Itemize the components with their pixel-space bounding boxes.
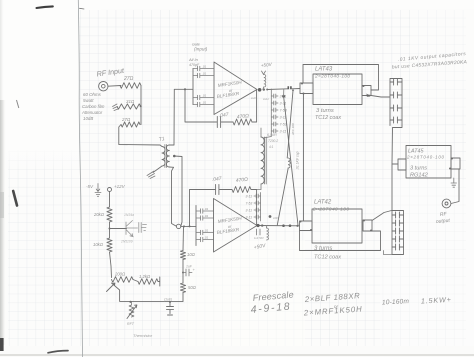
wire bias bottom <box>112 283 184 303</box>
svg-text:+12V: +12V <box>114 184 126 189</box>
feedback resistor R5 470ohm <box>232 177 257 226</box>
svg-text:2×28T040-100: 2×28T040-100 <box>314 74 350 80</box>
svg-text:.01: .01 <box>204 214 209 218</box>
svg-text:1.5KW+: 1.5KW+ <box>421 295 451 306</box>
resistor R3 27ohm <box>121 117 140 127</box>
wire cross diagonal B <box>284 89 298 225</box>
svg-text:60 Ohms: 60 Ohms <box>83 92 102 97</box>
svg-text:3-11: 3-11 <box>280 101 287 105</box>
svg-text:27Ω: 27Ω <box>123 76 134 82</box>
svg-text:2×28T040-100: 2×28T040-100 <box>312 207 349 213</box>
svg-text:3-11: 3-11 <box>280 129 287 133</box>
feedback resistor R4 470ohm <box>233 90 257 126</box>
connector input lower <box>176 224 180 228</box>
svg-text:Thermistor: Thermistor <box>133 333 153 338</box>
wire <box>384 251 393 255</box>
+50V feed <box>251 62 273 101</box>
wire <box>372 211 392 221</box>
pen slash left <box>13 191 17 206</box>
svg-text:200Ω: 200Ω <box>114 272 126 277</box>
svg-text:10Ω: 10Ω <box>187 252 196 257</box>
ground <box>451 178 457 187</box>
op-amp U2 MRF1K50H lower <box>214 199 258 253</box>
feedback cap C1 .047 <box>185 89 233 127</box>
resistor R9 1.2k <box>133 274 160 286</box>
svg-text:7-53: 7-53 <box>280 122 287 126</box>
input coupling caps U1 <box>185 65 214 107</box>
svg-text:LAT43: LAT43 <box>315 67 333 73</box>
capacitor C13 <box>164 298 174 316</box>
output matching caps lower <box>246 193 261 222</box>
svg-text:470Ω: 470Ω <box>237 113 250 120</box>
svg-text:LAT42: LAT42 <box>314 200 332 206</box>
svg-text:31Ω: 31Ω <box>126 99 135 104</box>
svg-text:.01: .01 <box>202 72 207 76</box>
wire lower bus <box>257 224 300 227</box>
wire <box>367 94 391 98</box>
node junction <box>184 88 186 90</box>
capacitor C14 1uF <box>182 260 196 284</box>
svg-text:3-11: 3-11 <box>246 208 253 212</box>
svg-text:2×28T040-100: 2×28T040-100 <box>406 155 445 160</box>
svg-text:(Input): (Input) <box>194 47 208 52</box>
svg-text:3-11: 3-11 <box>246 215 253 219</box>
small mark left <box>17 100 19 108</box>
connector J1 RF input <box>99 82 108 91</box>
svg-text:470pF: 470pF <box>189 63 200 67</box>
output matching caps upper <box>263 89 287 138</box>
input coupling caps U2 <box>196 206 214 246</box>
svg-text:3 turns: 3 turns <box>316 108 334 114</box>
svg-text:.047: .047 <box>212 176 223 183</box>
svg-text:10dB: 10dB <box>83 116 93 121</box>
op-amp U1 MRF1K50H upper <box>214 62 257 115</box>
+12V supply <box>108 184 126 207</box>
svg-text:7-53: 7-53 <box>246 201 253 205</box>
scan corner artifact <box>0 338 4 351</box>
svg-text:.01 1KV cap: .01 1KV cap <box>296 151 300 170</box>
transformer LAT43 <box>300 67 371 105</box>
svg-text:RG142: RG142 <box>410 173 429 179</box>
-5V supply <box>86 184 101 197</box>
LAT43 note <box>315 108 341 121</box>
title parts <box>303 291 363 317</box>
attenuator note <box>81 92 105 121</box>
resistor R2 31ohm <box>117 99 141 109</box>
svg-text:10-160m: 10-160m <box>382 298 410 306</box>
output cap note <box>392 51 467 70</box>
svg-text:.01: .01 <box>204 236 209 240</box>
svg-text:5watt: 5watt <box>83 98 94 103</box>
resistor R1 27ohm <box>120 76 141 88</box>
svg-text:T200-2: T200-2 <box>268 139 278 143</box>
capacitor bank upper C4-C7 <box>390 79 402 126</box>
svg-text:.01: .01 <box>202 65 207 69</box>
resistor R7 10k <box>93 238 112 252</box>
node drain upper <box>258 88 268 92</box>
connector RF output <box>436 199 451 225</box>
svg-text:10Ω: 10Ω <box>273 216 279 220</box>
svg-text:.01: .01 <box>204 207 209 211</box>
wire cross diagonal A <box>277 91 293 226</box>
svg-text:RFT: RFT <box>127 322 135 326</box>
ground <box>147 166 162 179</box>
feedback cap C2 .047 <box>190 176 233 226</box>
input caps note <box>188 57 200 67</box>
wire <box>182 226 185 250</box>
wire <box>267 86 300 98</box>
svg-text:20kΩ: 20kΩ <box>93 212 105 217</box>
wire <box>110 252 112 278</box>
svg-text:2N5109: 2N5109 <box>120 240 133 244</box>
svg-text:1uH: 1uH <box>263 97 269 101</box>
transistor Q1 bias <box>120 213 147 244</box>
transformer LAT45 <box>398 146 460 179</box>
resistor R10 50ohm <box>180 283 196 301</box>
LAT42 note <box>314 246 341 261</box>
wire loop <box>303 65 379 91</box>
wire <box>108 85 121 88</box>
svg-text:.01: .01 <box>202 94 207 98</box>
capacitor bank lower C8-C12 <box>392 211 404 255</box>
svg-text:.01: .01 <box>202 101 207 105</box>
svg-text:Carbon film: Carbon film <box>82 104 105 109</box>
transformer T1 label <box>158 136 165 143</box>
svg-text:4:1: 4:1 <box>269 145 274 149</box>
svg-text:6.5uH: 6.5uH <box>267 133 277 137</box>
svg-text:TC12 coax: TC12 coax <box>315 115 341 121</box>
svg-text:.047: .047 <box>219 112 230 119</box>
svg-text:10kΩ: 10kΩ <box>93 242 104 247</box>
choke T2 <box>257 128 279 190</box>
svg-text:3-11: 3-11 <box>280 94 287 98</box>
title Freescale <box>250 289 294 316</box>
potentiometer R8 200ohm <box>107 272 134 292</box>
wire <box>392 126 402 211</box>
wire <box>181 225 196 227</box>
svg-text:All In: All In <box>188 57 199 62</box>
transformer T1 <box>160 145 174 168</box>
resistor R11 10ohm <box>180 251 195 260</box>
input label <box>192 43 208 52</box>
svg-text:1uF 50V: 1uF 50V <box>254 236 264 240</box>
svg-text:27Ω: 27Ω <box>121 117 131 122</box>
svg-text:(1uF): (1uF) <box>164 298 172 302</box>
wire <box>109 222 127 238</box>
ground arrow <box>113 104 119 111</box>
svg-text:ATC 100: ATC 100 <box>291 123 295 136</box>
pen dash top-left <box>37 6 53 8</box>
svg-text:50Ω: 50Ω <box>188 285 197 290</box>
wire <box>451 169 459 204</box>
transformer LAT42 <box>300 200 373 244</box>
RF input label <box>96 66 125 79</box>
svg-text:-5V: -5V <box>86 184 94 189</box>
svg-text:TC12 coax: TC12 coax <box>314 255 341 261</box>
+50V feed lower <box>253 215 279 251</box>
wire loop bottom <box>300 231 381 251</box>
svg-text:3-11: 3-11 <box>246 194 253 198</box>
svg-text:.01: .01 <box>204 229 209 233</box>
wire <box>119 125 160 146</box>
title band power <box>382 295 451 307</box>
wire node to amplifiers <box>172 89 186 226</box>
svg-text:3 turns: 3 turns <box>410 166 427 172</box>
wire link verticals <box>291 94 304 221</box>
wire <box>140 86 142 125</box>
pen dash bottom-left <box>48 351 68 353</box>
thermistor RT1 <box>127 302 153 338</box>
sheet edge crease <box>78 0 82 357</box>
svg-text:470Ω: 470Ω <box>236 177 249 184</box>
resistor R6 20k <box>93 207 112 222</box>
svg-text:3 turns: 3 turns <box>314 246 332 252</box>
svg-text:1uF: 1uF <box>251 96 256 100</box>
svg-text:output: output <box>436 218 451 225</box>
node drain lower <box>256 224 263 227</box>
svg-text:1.2kΩ: 1.2kΩ <box>139 274 151 279</box>
svg-text:1N34a: 1N34a <box>124 213 134 217</box>
svg-text:Attenuator: Attenuator <box>81 110 103 115</box>
